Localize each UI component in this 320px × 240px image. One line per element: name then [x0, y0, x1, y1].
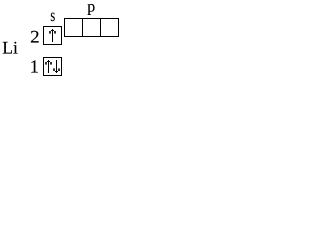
svg-text:1: 1 [30, 57, 39, 77]
2p orbital boxes [65, 19, 119, 37]
1s electron up arrow [45, 60, 52, 73]
svg-text:2: 2 [30, 27, 40, 47]
1s electron down arrow [53, 60, 60, 73]
svg-text:p: p [87, 0, 95, 15]
2s electron up arrow [49, 29, 56, 42]
p descender foot serif [88, 13, 90, 16]
1s orbital box [44, 58, 62, 76]
svg-text:s: s [50, 5, 55, 25]
2p box separator 2 [100, 19, 102, 37]
2p box separator 1 [82, 19, 84, 37]
svg-text:Li: Li [2, 38, 18, 58]
2s orbital box [44, 27, 62, 45]
